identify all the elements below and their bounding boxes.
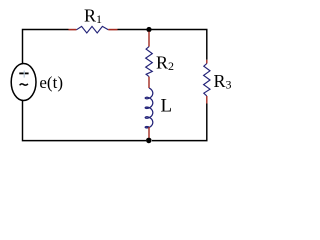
svg-text:R2: R2 [156, 53, 174, 74]
resistor R3 bottom lead (red) [206, 96, 208, 104]
resistor R2 zigzag [146, 47, 153, 77]
wire bottom junction to bottom-right + right vertical lower [152, 104, 207, 141]
inductor L bottom lead (red) [148, 127, 150, 138]
wire top: R1 right lead to top-right corner + right vertical upper [118, 30, 207, 60]
svg-text:L: L [161, 96, 173, 117]
svg-text:R3: R3 [214, 71, 232, 92]
resistor R1 zigzag [76, 26, 108, 33]
resistor R1 right lead (red) [108, 29, 117, 31]
svg-text:R1: R1 [84, 6, 102, 27]
voltage source tilde [20, 84, 28, 86]
voltage source e(t) ellipse [11, 64, 36, 101]
junction node top [146, 27, 151, 32]
resistor R3 top lead (red) [206, 60, 208, 64]
resistor R2 bottom lead (red) [148, 77, 150, 88]
resistor R2 top lead (red) [148, 32, 150, 47]
junction node bottom [146, 138, 152, 144]
voltage source plus sign [19, 72, 28, 74]
svg-text:e(t): e(t) [39, 73, 63, 92]
resistor R3 zigzag [204, 64, 210, 97]
wire top-left + left vertical upper [23, 30, 69, 64]
wire left vertical lower + bottom-left to bottom junction [23, 100, 147, 140]
resistor R1 left lead (red) [69, 29, 77, 31]
inductor L coil [145, 88, 153, 128]
